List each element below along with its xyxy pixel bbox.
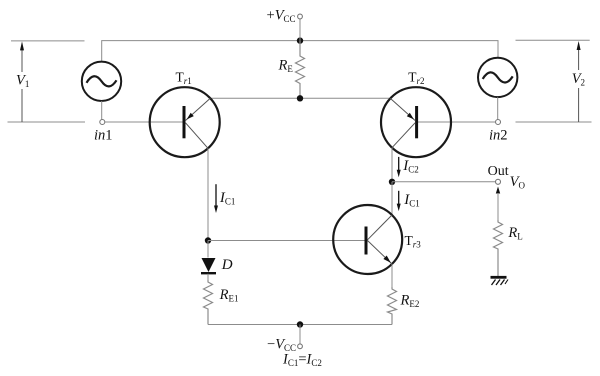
node -Vcc junction dot [297,321,303,327]
diode D [201,258,216,273]
svg-text:−VCC: −VCC [267,337,296,354]
svg-text:in1: in1 [94,128,113,144]
source V2 sine [478,58,517,97]
port V1 top line [11,40,85,42]
node V2 arrow [571,41,587,122]
wire Out to RL [497,193,499,220]
wire Tr3 emitter down [391,264,393,287]
source V1 sine [82,62,121,101]
wire +Vcc lead [299,19,301,41]
wire emitter rail [210,97,390,99]
node Out terminal [496,179,501,184]
svg-text:RE: RE [278,58,294,75]
port V2 bottom line [516,121,592,123]
port V1 bottom line [8,121,86,123]
svg-text:Tr2: Tr2 [408,70,424,87]
node base junction dot [205,237,211,243]
wire junction to Tr3 collector [391,182,393,215]
node out junction dot [389,179,395,185]
transistor Tr2 [381,87,451,157]
svg-text:IC1: IC1 [219,190,236,207]
svg-text:IC1: IC1 [403,192,420,209]
wire Tr1 collector down [207,148,209,240]
resistor RE [296,41,305,99]
svg-text:RE1: RE1 [219,287,239,304]
node IC1 left arrow [214,184,218,213]
wire top rail [102,41,498,61]
svg-text:in2: in2 [489,128,508,144]
node +Vcc terminal [298,14,303,19]
resistor RE2 [388,287,397,325]
svg-text:+VCC: +VCC [267,8,296,25]
node -Vcc terminal [298,344,303,349]
wire junction to diode [207,241,209,258]
svg-text:IC2: IC2 [402,158,419,175]
svg-text:RE2: RE2 [400,293,420,310]
wire diode to RE1 [207,274,209,280]
wire bottom rail [208,324,392,326]
node IC2 arrow [397,157,401,177]
svg-text:Out: Out [488,164,509,179]
wire junction to Out [392,181,496,183]
svg-text:Tr3: Tr3 [405,233,422,250]
svg-text:IC1=IC2: IC1=IC2 [282,352,322,369]
transistor Tr1 [150,87,220,157]
node in1 terminal [100,120,105,125]
svg-text:VO: VO [510,174,526,191]
port V2 top line [516,39,590,41]
wire in1 to Tr1 base [105,121,184,123]
node emitter rail junction dot [297,95,303,101]
wire in2 to Tr2 base [417,121,496,123]
resistor RL [494,220,503,276]
ground [491,277,509,285]
wire base junction to Tr3 [208,240,366,242]
wire -Vcc lead [299,325,301,345]
svg-text:D: D [221,257,233,273]
transistor Tr3 [333,205,402,274]
wire source1 to in1 [101,101,103,120]
node IC1 right arrow [397,191,401,211]
node V1 arrow [15,41,30,122]
node Vo arrow up [496,187,500,194]
svg-text:Tr1: Tr1 [176,69,192,86]
svg-text:RL: RL [507,225,522,242]
node +Vcc junction dot [297,37,303,43]
wire Tr2 collector down [391,148,393,182]
node in2 terminal [496,120,501,125]
resistor RE1 [204,280,213,325]
wire source2 to in2 [497,97,499,119]
